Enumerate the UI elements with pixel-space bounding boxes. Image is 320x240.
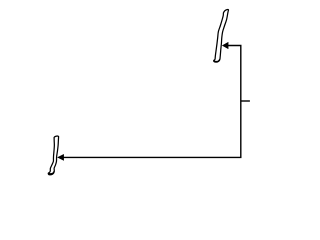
curved plate P1 (top right blade) [214,10,229,63]
arrowhead into top right plate [223,42,229,48]
arrowhead into bottom left plate [58,155,64,161]
tick stub on right vertical wire [241,100,250,102]
wire from top arrow to right vertical then bottom horizontal [63,46,241,158]
curved plate P2 (bottom left blade) [48,136,58,175]
